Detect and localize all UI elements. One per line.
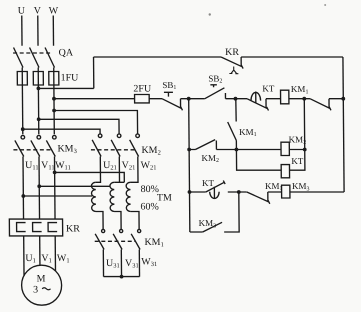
contactor KM1 pole 2 terminal	[120, 229, 123, 232]
node junction W to 2FU	[52, 97, 56, 101]
wire U31 to star point	[102, 250, 104, 277]
node D junction	[235, 148, 239, 152]
wire SB2 to node B	[225, 98, 235, 100]
wire winding 3 bottom to KM1 bank	[131, 212, 139, 230]
wire winding 1 bottom to KM1 bank	[96, 212, 103, 230]
contactor interlock NC post	[328, 99, 330, 108]
transformer TM winding 1	[91, 182, 96, 211]
fuse 2FU	[135, 95, 150, 103]
wire node B to KT contact	[235, 98, 247, 100]
wire U11 tap line to transformer	[23, 195, 92, 197]
coil KM2 label	[289, 135, 307, 146]
node tap junction V11	[37, 184, 41, 188]
pushbutton SB1 actuator	[164, 92, 173, 96]
contactor KM3 pole 3 terminal	[53, 135, 57, 139]
contactor KM1 pole 3 blade	[131, 234, 140, 250]
node U supply terminal label	[18, 6, 26, 17]
wire V11 down to KR	[38, 157, 41, 220]
switch QA interlock dashed line	[13, 52, 50, 54]
switch QA pole 2 blade	[30, 48, 39, 68]
pushbutton SB2 actuator	[210, 85, 217, 87]
svg-text:SB1: SB1	[162, 80, 176, 91]
node junction W to KM2	[52, 109, 56, 113]
thermal relay KR actuator symbol	[229, 67, 238, 74]
coil KM3	[282, 185, 290, 198]
switch QA label	[59, 48, 74, 59]
wire KM3 selfhold lower	[190, 231, 203, 233]
thermal relay KR label	[66, 224, 80, 235]
node C junction	[302, 97, 306, 101]
fuse 2FU label	[133, 84, 152, 95]
transformer TM label	[157, 193, 172, 204]
pushbutton SB1 blade	[162, 99, 183, 111]
coil KT	[281, 165, 289, 178]
thermal relay KR NC contact blade	[221, 57, 243, 69]
wire noise speck right	[324, 4, 326, 6]
svg-text:V11: V11	[41, 160, 55, 171]
coil KM1	[281, 90, 289, 104]
motor 3-phase label	[33, 285, 38, 296]
contactor KM2 pole 3 terminal	[136, 134, 140, 138]
wire W phase drop to QA	[52, 16, 54, 46]
svg-text:V1: V1	[41, 253, 52, 264]
contactor KM2 interlock dashed line	[91, 149, 135, 151]
pushbutton SB1 right post	[179, 99, 181, 108]
timer KT delayed NO cup	[210, 187, 220, 199]
svg-text:V21: V21	[122, 160, 136, 171]
svg-text:W11: W11	[55, 160, 71, 171]
coil KM1 label	[291, 84, 309, 95]
node tap junction W11	[53, 171, 57, 175]
transformer TM winding 3	[126, 182, 131, 211]
node W supply terminal label	[49, 6, 59, 17]
wire KT NO to KM1 NC	[228, 191, 247, 193]
thermal relay KR contact label	[225, 47, 239, 58]
svg-text:U31: U31	[106, 258, 120, 269]
motor M circle	[21, 265, 61, 305]
wire interlock to right rail	[329, 98, 343, 100]
node KM3 branch junction	[237, 190, 241, 194]
contactor KM3 selfhold NO blade	[203, 222, 223, 232]
svg-text:U: U	[18, 6, 26, 17]
contactor KM3 pole 3 blade	[46, 140, 55, 156]
node U11 label	[25, 160, 39, 171]
pushbutton SB1 label	[162, 80, 176, 91]
svg-text:TM: TM	[157, 193, 172, 204]
svg-text:KT: KT	[291, 156, 304, 166]
wire left rail to KM2 aux contact	[189, 149, 195, 151]
thermal relay KR heater 3	[48, 223, 57, 232]
svg-text:KR: KR	[66, 224, 80, 235]
fuse 1FU label	[61, 73, 80, 84]
contactor KM3 selfhold label	[199, 218, 217, 229]
wire right rail	[343, 57, 344, 192]
svg-text:KM1: KM1	[144, 237, 163, 248]
node A junction	[187, 97, 191, 101]
node B junction	[234, 97, 238, 101]
contactor KM1 label	[144, 237, 163, 248]
wire W11 tap line to transformer	[55, 172, 125, 182]
node V11 label	[41, 160, 55, 171]
switch QA pole 3 blade	[45, 48, 54, 68]
svg-text:3: 3	[33, 285, 38, 296]
contactor KM3 pole 2 terminal	[37, 135, 41, 139]
svg-text:KM3: KM3	[57, 144, 76, 155]
contactor KM1 pole 1 blade	[95, 234, 104, 250]
wire node A to SB2	[189, 98, 205, 100]
contactor KM1 NC interlock post	[267, 192, 269, 201]
node W1 label	[57, 253, 70, 264]
svg-text:KM3: KM3	[292, 181, 310, 192]
contactor KM1 interlock dashed line	[95, 240, 136, 242]
node left rail junction KM2 branch	[187, 148, 191, 152]
thermal relay KR heater 1	[17, 223, 26, 232]
wire node C to interlock contact	[304, 98, 310, 100]
timer KT delayed NC contact blade	[247, 99, 269, 111]
svg-text:KT: KT	[262, 84, 275, 94]
motor M label	[37, 273, 46, 284]
wire W branch to KM2 bank pole 3	[54, 111, 138, 135]
transformer tap 60% label	[140, 202, 158, 213]
pushbutton SB2 blade	[205, 88, 225, 99]
node star point junction	[120, 275, 124, 279]
svg-text:2FU: 2FU	[133, 84, 152, 95]
node V1 label	[41, 253, 52, 264]
svg-text:U21: U21	[103, 160, 117, 171]
coil KM3 label	[292, 181, 310, 192]
wire V21 drop to winding 2	[118, 157, 120, 183]
timer KT delayed NO label	[202, 178, 215, 188]
contactor KM1 auxiliary label	[239, 127, 257, 138]
wire control riser vertical	[93, 57, 95, 88]
svg-text:1FU: 1FU	[61, 73, 80, 84]
wire W1 KR to motor	[54, 236, 56, 271]
wire noise speck top	[209, 13, 211, 15]
wire U21 drop to winding 1	[95, 157, 100, 183]
svg-text:KM1: KM1	[239, 127, 257, 138]
contactor KM1 NC interlock label	[265, 181, 283, 192]
node junction V branch	[36, 87, 40, 91]
wire KM3 coil to right rail	[290, 191, 344, 193]
node U31 label	[106, 258, 120, 269]
wire KM1 coil to node C	[289, 98, 304, 100]
wire node B column lower to KT coil feed	[236, 141, 281, 171]
contactor interlock NC blade	[310, 99, 331, 111]
wire control top rail left	[94, 56, 221, 58]
wire winding 2 bottom to KM1 bank	[114, 212, 121, 230]
contactor KM1 NC interlock blade	[247, 192, 270, 204]
svg-text:W: W	[49, 6, 59, 17]
wire V QA to fuse	[37, 68, 40, 135]
node U21 label	[103, 160, 117, 171]
node C column junction	[303, 148, 307, 152]
node W11 label	[55, 160, 71, 171]
wire KT contact to KM1 coil	[266, 98, 281, 100]
fuse 1FU pole 1	[17, 72, 27, 86]
node junction U to KM2	[21, 127, 25, 131]
wire KM2 aux to KM2 coil	[216, 149, 281, 151]
svg-text:U11: U11	[25, 160, 39, 171]
contactor KM3 pole 2 blade	[31, 140, 40, 156]
wire V branch to KM2 bank pole 2	[39, 119, 119, 134]
wire W QA to fuse	[53, 68, 56, 135]
fuse 1FU pole 3	[49, 72, 59, 86]
pushbutton SB2 right post	[224, 93, 226, 99]
svg-text:W21: W21	[141, 160, 157, 171]
svg-text:KM1: KM1	[265, 181, 283, 192]
wire winding 2 top link	[114, 181, 124, 183]
wire left control rail	[189, 99, 190, 232]
contactor KM3 pole 1 blade	[15, 140, 24, 156]
svg-text:V31: V31	[125, 258, 139, 269]
contactor KM2 pole 3 blade	[130, 140, 139, 157]
wire V phase drop to QA	[37, 16, 39, 46]
wire W branch to 2FU	[54, 98, 135, 100]
node V supply terminal label	[34, 6, 42, 17]
coil KT label	[291, 156, 304, 166]
contactor KM2 auxiliary right post	[215, 141, 217, 150]
transformer tap 80% label	[141, 184, 159, 195]
svg-text:W31: W31	[141, 257, 157, 268]
wire SB1 to node A	[180, 98, 188, 100]
switch QA pole 1 blade	[14, 48, 23, 68]
timer KT delayed NO blade	[206, 181, 226, 193]
contactor KM1 pole 1 terminal	[102, 229, 105, 232]
wire node C column	[289, 99, 305, 171]
wire V11 tap line to transformer	[39, 185, 110, 187]
node V21 label	[122, 160, 136, 171]
wire W21 drop to winding 3	[130, 157, 138, 183]
node right rail junction	[341, 97, 345, 101]
contactor KM2 label	[141, 145, 160, 156]
svg-text:60%: 60%	[140, 202, 158, 213]
svg-text:M: M	[37, 273, 46, 284]
thermal relay KR NC contact post	[240, 57, 242, 66]
wire W11 down to KR	[53, 157, 56, 220]
wire KM2 coil to node C column	[289, 149, 304, 151]
wire KM1 NC to KM3 coil	[268, 191, 282, 193]
svg-text:W1: W1	[57, 253, 70, 264]
wire top rail right	[241, 56, 343, 58]
contactor KM2 auxiliary NO blade	[195, 140, 215, 150]
svg-text:KM2: KM2	[141, 145, 160, 156]
node left rail junction KM3 branch	[188, 190, 192, 194]
wire V1 KR to motor	[39, 236, 41, 266]
wire U phase drop to QA	[21, 16, 23, 46]
timer KT delay arc	[251, 92, 261, 104]
contactor KM1 auxiliary NO blade	[228, 122, 237, 141]
wire U11 down to KR	[22, 157, 25, 220]
wire node B column upper	[235, 99, 237, 122]
wire left rail to KT delayed NO contact	[190, 191, 206, 193]
contactor KM2 pole 1 blade	[92, 140, 101, 157]
contactor KM3 label	[57, 144, 76, 155]
svg-text:KM2: KM2	[289, 135, 307, 146]
wire U1 KR to motor	[23, 236, 25, 276]
timer KT delayed NC contact post	[265, 99, 267, 108]
contactor KM2 pole 1 terminal	[98, 134, 102, 138]
timer KT contact label	[262, 84, 275, 94]
transformer TM winding 2	[110, 182, 115, 211]
fuse 1FU pole 2	[33, 72, 43, 86]
svg-text:KM1: KM1	[291, 84, 309, 95]
thermal relay KR heater 2	[33, 223, 42, 232]
contactor KM2 pole 2 blade	[111, 140, 120, 157]
wire W31 to star point	[138, 250, 140, 277]
node U1 label	[25, 253, 36, 264]
thermal relay KR box	[9, 219, 62, 236]
svg-text:U1: U1	[25, 253, 36, 264]
contactor KM3 interlock dashed line	[13, 149, 51, 151]
contactor KM2 auxiliary label	[201, 153, 219, 164]
contactor KM1 pole 3 terminal	[138, 229, 141, 232]
node junction V to KM2	[37, 117, 41, 121]
wire star point bar	[104, 276, 140, 278]
contactor KM2 pole 2 terminal	[117, 134, 121, 138]
wire V31 to star point	[120, 250, 122, 277]
wire V branch to control riser	[38, 87, 93, 89]
wire U QA to fuse	[21, 68, 24, 135]
svg-text:KM3: KM3	[199, 218, 217, 229]
svg-text:KR: KR	[225, 47, 239, 58]
wire U branch to KM2 bank pole 1	[23, 129, 100, 134]
wire 2FU to SB1	[149, 98, 162, 100]
node tap junction U11	[21, 194, 25, 198]
contactor KM3 pole 1 terminal	[21, 135, 25, 139]
coil KM2	[281, 142, 289, 155]
contactor KM1 pole 2 blade	[113, 234, 122, 250]
svg-text:KT: KT	[202, 178, 215, 188]
node W31 label	[141, 257, 157, 268]
svg-text:KM2: KM2	[201, 153, 219, 164]
svg-text:QA: QA	[59, 48, 74, 59]
svg-text:SB2: SB2	[208, 74, 222, 85]
node W21 label	[141, 160, 157, 171]
pushbutton SB2 label	[208, 74, 222, 85]
wire KM3 selfhold right riser	[224, 192, 239, 232]
node V31 label	[125, 258, 139, 269]
svg-text:V: V	[34, 6, 42, 17]
